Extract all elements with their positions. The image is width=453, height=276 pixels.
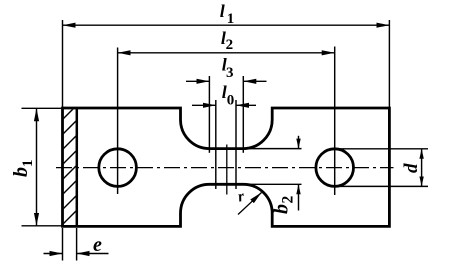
label b2: [271, 196, 297, 215]
b2 dimension: [244, 136, 302, 211]
svg-text:l: l: [220, 1, 225, 21]
l2 dimension: [118, 47, 335, 196]
l1 dimension: [63, 20, 390, 107]
svg-text:d: d: [401, 163, 422, 173]
hatched grip edge band: [58, 98, 84, 244]
svg-text:3: 3: [226, 65, 234, 81]
vertical centerline mid: [226, 145, 228, 195]
svg-text:1: 1: [20, 160, 36, 168]
horizontal centerline: [56, 167, 394, 169]
l3 dimension: [186, 76, 267, 153]
d dimension: [335, 149, 428, 187]
label r: [236, 188, 246, 206]
svg-text:b: b: [271, 204, 293, 214]
r leader: [238, 193, 262, 215]
l0 dimension: [192, 100, 256, 189]
hole right: [316, 149, 354, 187]
svg-text:1: 1: [227, 11, 235, 27]
svg-text:b: b: [10, 167, 32, 177]
b1 dimension: [22, 108, 63, 226]
label b1: [10, 160, 36, 178]
svg-text:e: e: [93, 234, 102, 256]
e dimension: [44, 228, 109, 261]
svg-text:2: 2: [280, 196, 297, 204]
svg-text:2: 2: [226, 37, 234, 53]
label d: [401, 163, 422, 173]
hole left: [99, 149, 137, 187]
specimen outline: [63, 108, 390, 226]
svg-text:0: 0: [227, 93, 235, 109]
